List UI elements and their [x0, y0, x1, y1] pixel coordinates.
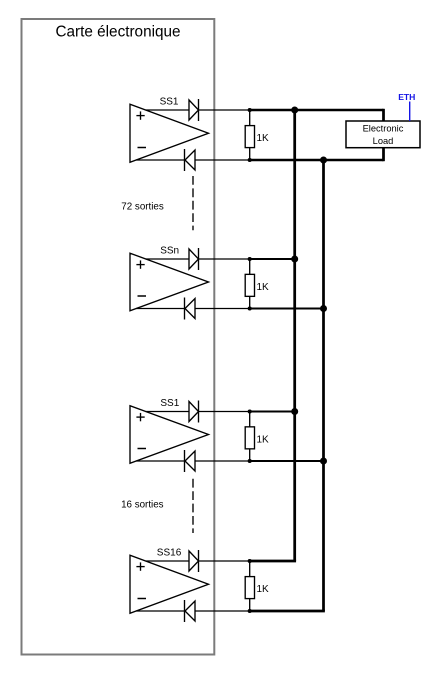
wire: U2 bottom return to diode D2b [136, 308, 184, 310]
net ETH (blue) stub line [409, 102, 411, 122]
wire: diode D1a cathode to resistor node [199, 109, 250, 111]
svg-text:SS1: SS1 [160, 97, 179, 108]
wire: block2 bottom tap to bus B [250, 308, 324, 310]
resistor R16 1K [245, 561, 254, 611]
svg-text:16 sorties: 16 sorties [121, 499, 164, 510]
wire: block3 bottom tap to bus B [250, 460, 324, 462]
node: bus B junction block3 [320, 458, 327, 465]
wire: U4 top output to diode anode [146, 560, 189, 562]
node: bus B junction block1 [320, 157, 327, 164]
op-amp U4 (SS16) comparator triangle [130, 555, 209, 613]
wire: U3 bottom return to diode D3b [136, 460, 184, 462]
wire: diode D2b to resistor node [195, 308, 250, 310]
wire: U2 top output to diode anode [146, 258, 189, 260]
wire: diode D4b to resistor node [195, 610, 250, 612]
resistor R1 1K [245, 110, 254, 160]
svg-text:SSn: SSn [160, 246, 179, 257]
op-amp U4 minus input marking [138, 598, 147, 600]
wire: U3 top output to diode anode [146, 411, 189, 413]
node: resistor bottom junction on U2 return [248, 306, 252, 310]
svg-text:Carte électronique: Carte électronique [56, 24, 181, 41]
node: bus A junction block3 [291, 408, 298, 415]
diode D4b (bottom, pointing left) [185, 600, 196, 622]
svg-text:1K: 1K [257, 133, 270, 144]
diode D4a (top, pointing right) [189, 550, 199, 572]
op-amp U3 minus input marking [138, 448, 147, 450]
resistor Rn 1K [245, 259, 254, 309]
diode D2b (bottom, pointing left) [185, 298, 196, 320]
diode D1b (bottom, pointing left) [185, 149, 196, 171]
resistor R1b 1K [245, 412, 254, 462]
node: resistor top junction on U2 output [248, 257, 252, 261]
wire: bus A vertical (top outputs) [293, 110, 296, 561]
op-amp U1 (SS1) comparator triangle [130, 104, 209, 162]
op-amp U1 minus input marking [138, 147, 147, 149]
wire: U1 top output to diode anode [146, 109, 189, 111]
op-amp U3 (SS1) comparator triangle [130, 406, 209, 464]
op-amp U2 plus input marking [136, 264, 144, 266]
dashed ellipsis: outputs 1..16 continuation [192, 479, 194, 533]
wire: U4 bottom return to diode D4b [136, 610, 184, 612]
op-amp U3 plus input marking [136, 416, 144, 418]
wire: stub up into electronic load bottom [382, 147, 385, 162]
wire: block4 top run to bus A corner (heavy) [250, 560, 296, 563]
dashed ellipsis: outputs 1..72 continuation [192, 176, 194, 230]
op-amp U4 plus input marking [136, 566, 144, 568]
node: bus A junction block1 [291, 107, 298, 114]
wire: bus B vertical (bottom returns) [322, 160, 325, 611]
node: resistor top junction on U3 output [248, 409, 252, 413]
wire: stub down into electronic load top [382, 109, 385, 122]
node: resistor bottom junction on U4 return [248, 609, 252, 613]
svg-text:1K: 1K [257, 584, 270, 595]
svg-text:1K: 1K [257, 434, 270, 445]
wire: block2 top tap to bus A [250, 258, 295, 260]
svg-text:SS1: SS1 [160, 398, 179, 409]
svg-text:Load: Load [373, 136, 394, 146]
electronic load instrument box [346, 121, 420, 148]
node: resistor bottom junction on U1 return [248, 158, 252, 162]
svg-text:Electronic: Electronic [363, 123, 404, 133]
op-amp U2 (SSn) comparator triangle [130, 253, 209, 311]
node: resistor top junction on U4 output [248, 559, 252, 563]
wire: diode D3b to resistor node [195, 460, 250, 462]
node: resistor bottom junction on U3 return [248, 459, 252, 463]
wire: diode D1b to resistor node [195, 159, 250, 161]
svg-text:1K: 1K [257, 282, 270, 293]
wire: block1 top run to electronic load (heavy) [250, 109, 384, 112]
svg-text:SS16: SS16 [157, 548, 182, 559]
wire: block4 bottom run to bus B corner (heavy) [250, 610, 325, 613]
diode D2a (top, pointing right) [189, 248, 199, 270]
enclosure: carte electronique board outline [22, 19, 215, 655]
diode D3a (top, pointing right) [189, 401, 199, 423]
diode D3b (bottom, pointing left) [185, 450, 196, 472]
diode D1a (top, pointing right) [189, 99, 199, 121]
svg-text:ETH: ETH [398, 92, 415, 102]
wire: diode D2a cathode to resistor node [199, 258, 250, 260]
wire: block1 bottom run to electronic load (heavy) [250, 159, 384, 162]
node: bus B junction block2 [320, 305, 327, 312]
wire: U1 bottom return to diode D1b [136, 159, 184, 161]
op-amp U2 minus input marking [138, 295, 147, 297]
wire: diode D4a cathode to resistor node [199, 560, 250, 562]
node: resistor top junction on U1 output [248, 108, 252, 112]
svg-text:72 sorties: 72 sorties [121, 201, 164, 212]
wire: diode D3a cathode to resistor node [199, 411, 250, 413]
wire: block3 top tap to bus A [250, 411, 295, 413]
op-amp U1 plus input marking [136, 115, 144, 117]
node: bus A junction block2 [291, 256, 298, 263]
